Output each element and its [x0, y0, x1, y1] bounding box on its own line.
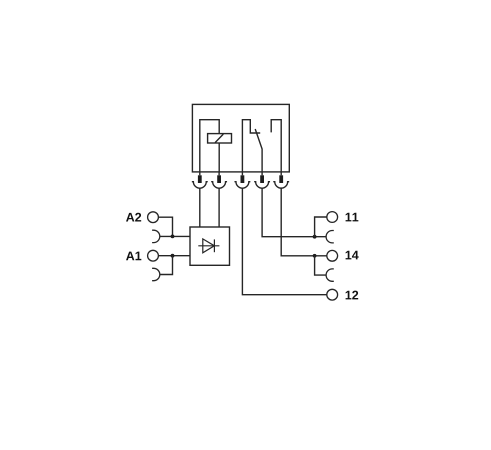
relay coil K1: [208, 134, 232, 143]
wire junction to socket 14: [315, 256, 327, 275]
wire pin4 to socket 11: [262, 188, 326, 237]
terminal 12 label: [346, 291, 359, 300]
wire pin3 to terminal 12: [242, 188, 327, 295]
pin 4 plug: [254, 172, 270, 188]
terminal A1 socket: [152, 268, 160, 280]
wire pin2 to diode box: [218, 188, 220, 227]
terminal 11 socket: [326, 231, 334, 243]
terminal A2 label: [126, 213, 141, 222]
junction A1: [171, 254, 175, 258]
pin 1 plug: [192, 172, 208, 188]
terminal 11 label: [346, 213, 359, 222]
wire A1 circle to diode box: [158, 255, 190, 257]
terminal A2 circle: [148, 212, 159, 223]
pin 3 plug: [234, 172, 250, 188]
terminal A2 socket: [152, 230, 160, 242]
wire A2 circle to junction: [158, 217, 172, 236]
diode module box: [190, 227, 230, 265]
terminal A1 label: [126, 252, 141, 261]
terminal 12 circle: [327, 289, 338, 300]
contact moving blade from pin4: [255, 129, 262, 172]
terminal 14 label: [346, 251, 359, 260]
wire A1 socket to junction: [160, 256, 173, 275]
wire pin1 riser to coil top: [200, 120, 219, 172]
diode D1: [198, 239, 219, 253]
contact 11 fixed NC seat: [242, 120, 260, 172]
wire coil bottom to pin2: [218, 143, 220, 172]
pin 5 plug: [273, 172, 289, 188]
terminal A1 circle: [148, 250, 159, 261]
junction 14: [313, 254, 317, 258]
wire A2 socket to diode box: [160, 235, 190, 237]
wire junction to terminal 11 circle: [315, 217, 327, 237]
contact 14 fixed stub: [271, 120, 281, 172]
junction A2: [171, 235, 175, 239]
junction 11: [313, 235, 317, 239]
terminal 14 socket: [326, 269, 334, 281]
wire pin1 to diode box: [199, 188, 201, 227]
coil diagonal: [215, 134, 223, 143]
wire pin5 to terminal 14 circle: [281, 188, 327, 256]
relay housing outline: [192, 104, 289, 171]
pin 2 plug: [211, 172, 227, 188]
terminal 11 circle: [327, 212, 338, 223]
terminal 14 circle: [327, 250, 338, 261]
